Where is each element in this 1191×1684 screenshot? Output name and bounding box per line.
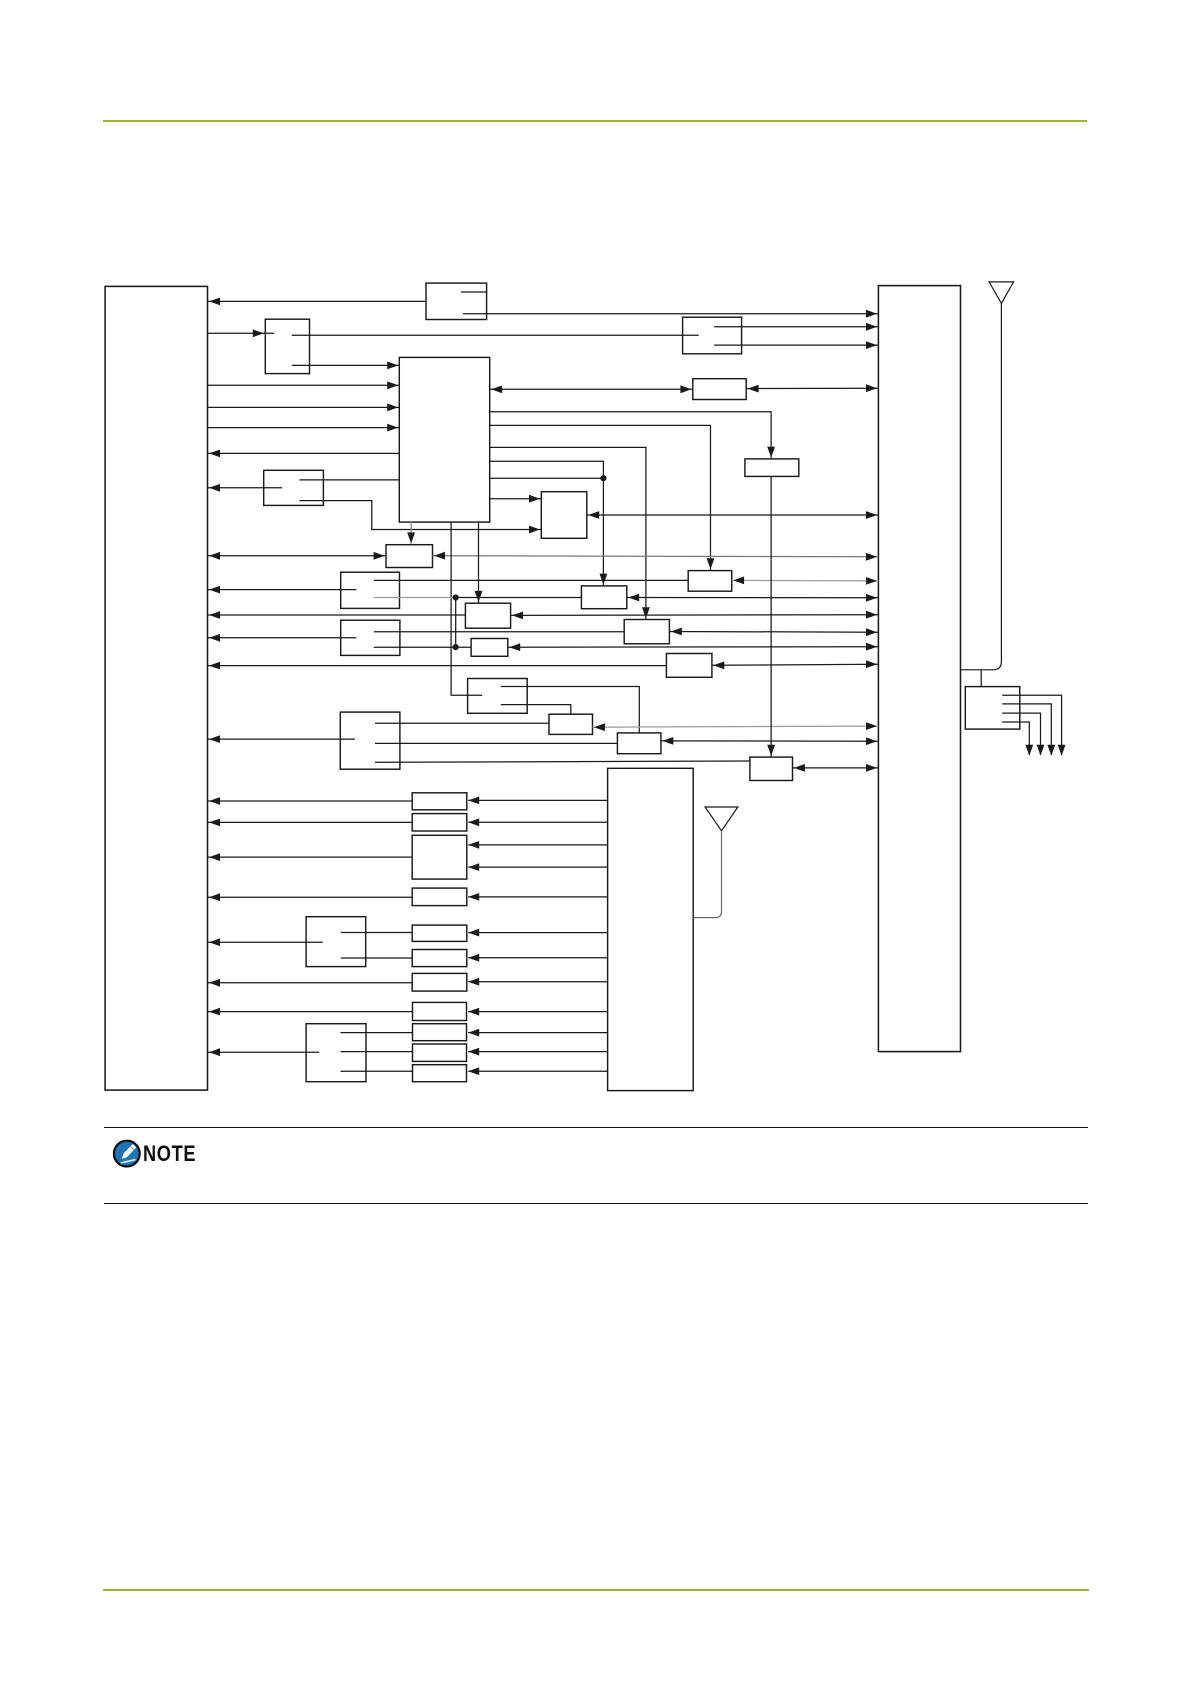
wire baseband to Y <box>490 412 775 459</box>
wire W output 1 to RF <box>714 323 878 331</box>
power management block <box>608 768 694 1090</box>
wire V internal tap <box>461 291 487 293</box>
wire F to G <box>501 687 640 733</box>
wire C to left block <box>208 735 355 743</box>
wire N to L5 <box>341 932 412 934</box>
buffer box X <box>693 379 746 400</box>
mux box D <box>264 470 324 505</box>
regulator box L1 <box>412 793 467 810</box>
page header rule <box>103 120 1087 122</box>
RF transceiver block <box>878 286 960 1052</box>
note icon <box>112 1139 142 1169</box>
mux box U <box>265 319 309 373</box>
wire power block feed 6 <box>468 929 607 937</box>
wire D to baseband <box>299 479 399 481</box>
wire T to left block <box>208 586 357 594</box>
wire baseband down to Q <box>407 522 415 544</box>
regulator box L6 <box>412 950 467 967</box>
wire L2 to left block <box>208 819 413 827</box>
filter box S <box>471 639 508 657</box>
wire R to left block <box>208 611 466 619</box>
antenna switch box <box>965 687 1020 730</box>
wire power block feed 9 <box>468 1008 607 1016</box>
regulator box L4 <box>412 888 467 906</box>
regulator box L11 <box>413 1065 467 1082</box>
wire power block feed 7 <box>468 954 607 962</box>
wire baseband to X bidirectional <box>490 385 693 393</box>
mux box N <box>306 917 366 967</box>
wire left block to baseband 1 <box>208 381 399 389</box>
filter box A <box>581 586 626 609</box>
wire baseband to left block <box>208 450 400 458</box>
filter box M <box>750 757 793 780</box>
wire left block to baseband 3 <box>208 424 399 432</box>
wire B to RF bidirectional <box>732 577 879 585</box>
wire E to left block <box>208 662 667 670</box>
wire switch output 1 <box>1002 695 1065 756</box>
wire L3 to left block <box>208 853 413 861</box>
wire X to RF bidirectional <box>746 384 878 392</box>
wire power block feed 10 <box>468 1029 607 1037</box>
antenna ANT2 <box>705 807 738 831</box>
filter box G <box>617 733 661 754</box>
wire switch output 3 <box>1002 713 1044 756</box>
wire baseband to node J1 <box>490 475 607 481</box>
wire O to left block <box>208 1048 320 1056</box>
codec box Z <box>541 492 587 539</box>
wire power block feed 1 <box>468 797 607 805</box>
wire Z to RF bidirectional <box>587 511 879 519</box>
wire V to RF block <box>463 310 878 318</box>
wire V to left block <box>208 298 426 306</box>
mux box C <box>340 712 400 769</box>
filter box E <box>666 654 712 678</box>
wire L8 to left block <box>208 1008 413 1016</box>
wire ANT1 branch to antenna switch <box>980 670 982 687</box>
wire E to RF bidirectional <box>712 660 879 669</box>
regulator box L5 <box>412 925 467 941</box>
regulator box L7 <box>412 973 467 991</box>
wire ANT2 feed to power block <box>693 831 721 918</box>
mux box T <box>341 572 400 608</box>
wire H to RF bidirectional <box>593 722 879 731</box>
mux box O <box>306 1024 366 1082</box>
wire A to RF bidirectional <box>627 594 879 602</box>
wire T2 to S <box>374 646 471 648</box>
note section top rule <box>104 1127 1088 1129</box>
wire N to L6 <box>341 957 412 959</box>
wire left block to U <box>208 329 275 337</box>
wire power block feed 5 <box>468 893 607 901</box>
wire power block feed 2 <box>468 818 607 826</box>
wire R to RF bidirectional <box>511 611 879 620</box>
wire left block to Q bidirectional <box>208 552 387 560</box>
wire node J2 to A <box>453 594 582 600</box>
wire power block feed 12 <box>468 1067 607 1075</box>
regulator box L8 <box>413 1002 467 1020</box>
wire L7 to left block <box>208 979 413 987</box>
wire ANT1 feed to RF block <box>961 303 1002 669</box>
antenna ANT1 <box>989 282 1014 304</box>
wire baseband to A <box>490 461 608 585</box>
wire S to RF bidirectional <box>508 643 879 651</box>
wire D to Z <box>299 501 540 534</box>
filter box R <box>465 603 510 628</box>
wire L1 to left block <box>208 797 413 805</box>
wire baseband down to R <box>475 522 483 603</box>
wire left block to baseband 2 <box>208 404 399 412</box>
filter box H <box>549 714 593 734</box>
wire power block feed 3 <box>468 841 607 849</box>
wire D to left block <box>208 484 283 492</box>
wire N to left block <box>208 938 323 946</box>
wire C to H <box>375 722 549 724</box>
wire M to RF bidirectional <box>793 764 879 772</box>
wire O to L10 <box>341 1051 413 1053</box>
regulator box L3 <box>412 835 467 879</box>
wire power block feed 11 <box>468 1048 607 1056</box>
mux box W <box>683 317 742 354</box>
wire C to M <box>375 761 750 762</box>
page footer rule <box>103 1589 1089 1591</box>
wire O to L9 <box>341 1032 413 1034</box>
wire O to L11 <box>341 1070 413 1072</box>
wire baseband down to F <box>451 522 482 695</box>
node bridge J2-J3 <box>453 598 459 651</box>
wire power block feed 4 <box>468 863 607 871</box>
wire baseband to Z <box>490 495 541 503</box>
note section bottom rule <box>104 1203 1088 1205</box>
filter box B <box>688 571 732 592</box>
mux box T2 <box>341 620 400 655</box>
wire U to baseband <box>292 362 399 370</box>
wire Y down to M <box>767 476 775 756</box>
regulator box L10 <box>413 1044 467 1061</box>
filter box P <box>624 620 669 644</box>
wire power block feed 8 <box>468 978 607 986</box>
wire G to RF bidirectional <box>661 737 879 745</box>
wire L4 to left block <box>208 893 413 901</box>
regulator box L9 <box>413 1024 467 1041</box>
wire T2 to P <box>374 631 624 633</box>
divider box F <box>468 679 528 714</box>
regulator box V <box>426 283 487 319</box>
wire T to B <box>374 579 688 581</box>
left interface connector block <box>105 286 207 1090</box>
wire switch output 4 <box>1002 722 1033 756</box>
wire T to node J2 <box>374 597 456 599</box>
note label <box>143 1141 196 1167</box>
buffer box Q <box>386 545 433 568</box>
wire P to RF bidirectional <box>669 628 878 637</box>
wire W output 2 to RF <box>714 341 878 349</box>
baseband controller block <box>399 357 489 522</box>
wire baseband to B <box>490 425 715 570</box>
wire F to H <box>501 705 571 715</box>
regulator box L2 <box>412 814 467 831</box>
wire Q to RF bidirectional <box>433 552 879 561</box>
wire U to W <box>292 334 699 336</box>
wire switch output 2 <box>1002 704 1055 756</box>
wire baseband to P <box>490 447 650 619</box>
wire C to G <box>375 742 617 744</box>
wire T2 to left block <box>208 634 357 642</box>
level shifter box Y <box>745 459 799 477</box>
